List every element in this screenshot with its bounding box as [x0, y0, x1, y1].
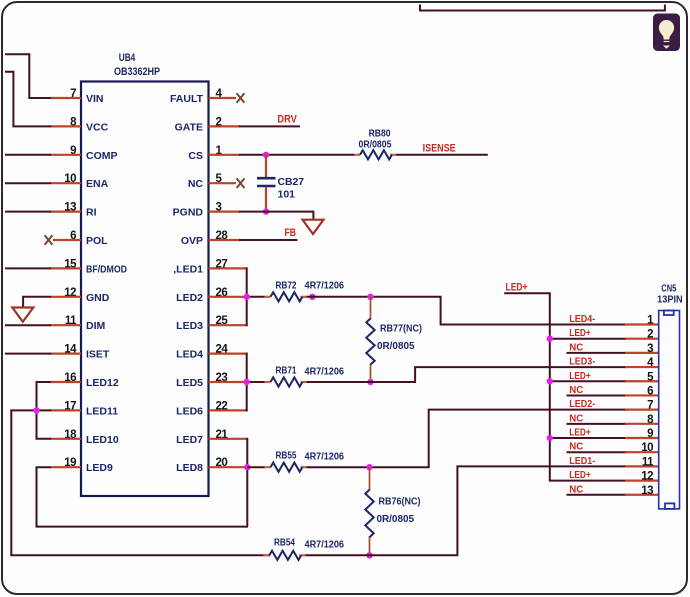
svg-text:RI: RI [86, 207, 97, 219]
wire LED+ to pin 5 [550, 380, 627, 382]
svg-text:LED+: LED+ [506, 281, 528, 293]
CN5 pin 7 stub [625, 409, 659, 411]
wire NC stub to CN5 pin 6 [567, 394, 628, 396]
wire LED12 to LED10 tie [37, 382, 52, 439]
wire NC stub to CN5 pin 13 [567, 494, 628, 496]
svg-text:LED9: LED9 [86, 462, 113, 474]
CN5 pin 12 stub [625, 479, 659, 481]
svg-text:LED8: LED8 [176, 462, 203, 474]
svg-text:CB27: CB27 [278, 176, 305, 188]
svg-text:6: 6 [647, 385, 653, 397]
CN5 pin 4 stub [625, 366, 659, 368]
pin 15 BF/DMOD stub [50, 267, 81, 269]
pin 26 LED2 stub [209, 296, 248, 298]
svg-text:0R/0805: 0R/0805 [377, 513, 415, 525]
pin 20 LED8 stub [209, 466, 248, 468]
connector CN5 bottom key notch [665, 503, 674, 509]
svg-text:ISENSE: ISENSE [423, 142, 456, 154]
wire top bus bracket [420, 5, 665, 11]
svg-text:3: 3 [647, 343, 653, 355]
wire RB55 output to CN5 pin 7 (LED2-) [307, 410, 628, 468]
junction RB77 bottom [367, 379, 373, 385]
pin 13 RI stub [50, 211, 81, 213]
svg-text:NC: NC [569, 413, 583, 424]
wire PGND net [239, 212, 313, 220]
svg-text:COMP: COMP [86, 150, 118, 162]
wire DRV net [239, 125, 300, 127]
svg-text:DIM: DIM [86, 320, 106, 332]
svg-text:FAULT: FAULT [170, 93, 204, 105]
wire NC stub to CN5 pin 8 [567, 423, 628, 425]
svg-text:GND: GND [86, 292, 110, 304]
pin 27 LED1 stub [209, 267, 248, 269]
junction RB76 bottom [366, 552, 372, 558]
svg-text:LED6: LED6 [176, 405, 203, 417]
svg-text:OVP: OVP [181, 235, 203, 247]
CN5 pin 1 stub [625, 323, 659, 325]
svg-text:LED3-: LED3- [569, 357, 595, 368]
no-connect X on FAULT pin 4 [237, 93, 245, 103]
junction LED8 tie [244, 464, 250, 470]
wire BF/DMOD net [5, 267, 51, 269]
wire ISET net [5, 353, 51, 355]
wire RB72 output to CN5 pin 1 (LED4-) [307, 297, 628, 325]
svg-text:13: 13 [641, 485, 653, 497]
svg-text:RB55: RB55 [276, 450, 297, 462]
svg-text:LED7: LED7 [176, 434, 203, 446]
svg-text:LED4-: LED4- [569, 314, 595, 325]
CN5 pin 13 stub [625, 494, 659, 496]
svg-text:NC: NC [569, 385, 583, 396]
wire LED4/LED5/LED6 tie [246, 353, 248, 412]
resistor RB80 [354, 154, 360, 156]
svg-text:NC: NC [569, 484, 583, 495]
wire VIN net [5, 54, 51, 98]
wire LED8 to RB55 [247, 466, 264, 468]
svg-text:101: 101 [278, 189, 296, 201]
svg-text:LED2: LED2 [176, 292, 203, 304]
svg-text:GATE: GATE [175, 121, 203, 133]
pin 11 DIM stub [50, 324, 81, 326]
wire LED9 net [37, 467, 249, 526]
wire VCC net [5, 72, 51, 127]
pin 21 LED7 stub [209, 438, 248, 440]
junction LED5 tie [244, 379, 250, 385]
svg-text:OB3362HP: OB3362HP [114, 66, 160, 78]
wire CS net to ISENSE [239, 154, 354, 156]
CN5 pin 11 stub [625, 465, 659, 467]
wire LED7/LED8/LED9 tie [246, 438, 248, 527]
svg-text:LED10: LED10 [86, 434, 119, 446]
pin 5 NC stub [209, 182, 237, 184]
CN5 pin 9 stub [625, 437, 659, 439]
junction LED2 tie [244, 294, 250, 300]
pin 18 LED10 stub [50, 438, 81, 440]
capacitor CB27 [257, 155, 276, 212]
svg-text:LED2-: LED2- [569, 399, 595, 410]
ground symbol (PGND) [303, 220, 324, 234]
junction CS / CB27 top [263, 152, 269, 158]
wire COMP net [5, 154, 51, 156]
junction RB77 top [367, 294, 373, 300]
junction RB72 output [309, 294, 315, 300]
svg-text:VCC: VCC [86, 121, 109, 133]
svg-text:LED1-: LED1- [569, 456, 595, 467]
no-connect X on NC pin 5 [237, 178, 245, 188]
svg-text:LED+: LED+ [569, 328, 591, 339]
pin 23 LED5 stub [209, 381, 248, 383]
pin 12 GND stub [50, 296, 81, 298]
svg-text:VIN: VIN [86, 93, 104, 105]
svg-text:UB4: UB4 [119, 52, 136, 64]
svg-text:4R7/1206: 4R7/1206 [305, 539, 345, 551]
svg-text:LED+: LED+ [569, 470, 591, 481]
CN5 pin 10 stub [625, 451, 659, 453]
wire RB71 output to CN5 pin 4 (LED3-) [307, 367, 628, 382]
svg-text:RB72: RB72 [276, 280, 297, 292]
svg-text:LED4: LED4 [176, 349, 203, 361]
svg-text:LED5: LED5 [176, 377, 203, 389]
connector CN5 body [659, 311, 680, 509]
CN5 pin 2 stub [625, 338, 659, 340]
IC UB4 OB3362HP body [81, 82, 209, 497]
wire NC stub to CN5 pin 3 [567, 352, 628, 354]
wire RB54 output to CN5 pin 11 (LED1-) [305, 466, 627, 555]
svg-text:7: 7 [647, 400, 653, 412]
svg-text:POL: POL [86, 235, 108, 247]
resistor RB54 [263, 554, 269, 556]
connector CN5 top key notch [664, 311, 674, 316]
wire LED1/LED2/LED3 tie [246, 267, 248, 326]
svg-text:11: 11 [642, 456, 654, 468]
CN5 pin 6 stub [625, 394, 659, 396]
pin 10 ENA stub [50, 182, 81, 184]
svg-text:RB76(NC): RB76(NC) [379, 496, 421, 508]
pin 22 LED6 stub [209, 409, 248, 411]
pin 16 LED12 stub [50, 381, 81, 383]
pin 19 LED9 stub [50, 466, 81, 468]
junction LED11/LED12/LED10 [33, 407, 39, 413]
svg-text:9: 9 [647, 428, 653, 440]
svg-text:RB54: RB54 [274, 537, 295, 549]
junction LED+ pin 2 [547, 335, 553, 341]
svg-text:0R/0805: 0R/0805 [359, 139, 392, 151]
pin 17 LED11 stub [50, 409, 81, 411]
light bulb icon [653, 14, 680, 52]
CN5 pin 3 stub [625, 352, 659, 354]
pin 25 LED3 stub [209, 324, 248, 326]
svg-text:LED3: LED3 [176, 320, 203, 332]
svg-text:2: 2 [647, 329, 653, 341]
svg-text:LED+: LED+ [569, 371, 591, 382]
wire LED+ to pin 2 [550, 338, 627, 340]
svg-text:NC: NC [569, 442, 583, 453]
svg-text:BF/DMOD: BF/DMOD [86, 263, 127, 275]
svg-text:LED11: LED11 [86, 405, 118, 417]
wire NC stub to CN5 pin 10 [567, 451, 628, 453]
wire DIM net [5, 324, 51, 326]
wire LED11 net to RB54 [11, 410, 270, 555]
svg-text:4R7/1206: 4R7/1206 [305, 280, 345, 292]
pin 14 ISET stub [50, 353, 81, 355]
wire ENA net [5, 182, 51, 184]
resistor RB55 [265, 466, 271, 468]
pin 2 GATE stub [209, 125, 241, 127]
svg-text:NC: NC [569, 342, 583, 353]
pin 24 LED4 stub [209, 353, 248, 355]
pin 8 VCC stub [50, 125, 81, 127]
CN5 pin 8 stub [625, 423, 659, 425]
svg-text:DRV: DRV [277, 113, 297, 125]
wire LED2 to RB72 [247, 296, 265, 298]
svg-text:,LED1: ,LED1 [173, 263, 203, 275]
svg-text:0R/0805: 0R/0805 [377, 340, 415, 352]
junction LED+ pin 5 [547, 378, 553, 384]
svg-text:RB71: RB71 [276, 365, 297, 377]
resistor RB72 [265, 296, 271, 298]
svg-text:ISET: ISET [86, 349, 110, 361]
svg-text:10: 10 [641, 442, 653, 454]
CN5 pin 5 stub [625, 380, 659, 382]
pin 7 VIN stub [50, 97, 81, 99]
wire LED+ to pin 9 [550, 437, 627, 439]
ground symbol (left) [12, 308, 33, 322]
resistor RB71 [265, 381, 271, 383]
svg-text:CN5: CN5 [661, 284, 676, 295]
wire LED+ bus [504, 293, 627, 480]
svg-text:FB: FB [285, 227, 297, 239]
svg-text:PGND: PGND [173, 207, 204, 219]
pin 28 OVP stub [209, 239, 241, 241]
svg-text:RB77(NC): RB77(NC) [380, 323, 422, 335]
wire LED5 to RB71 [247, 381, 265, 383]
junction LED+ pin 9 [547, 435, 553, 441]
svg-text:13PIN: 13PIN [657, 295, 683, 306]
resistor RB76 (NC) [369, 467, 371, 490]
wire ISENSE net [396, 154, 488, 156]
pin 9 COMP stub [50, 154, 81, 156]
svg-text:CS: CS [188, 150, 203, 162]
svg-text:ENA: ENA [86, 178, 109, 190]
svg-text:NC: NC [188, 178, 204, 190]
no-connect X on POL pin 6 [45, 235, 53, 245]
svg-text:4R7/1206: 4R7/1206 [305, 451, 345, 463]
junction RB76 top [366, 464, 372, 470]
svg-text:12: 12 [641, 471, 653, 483]
pin 6 POL stub [53, 239, 81, 241]
wire RI net [5, 211, 51, 213]
svg-text:4R7/1206: 4R7/1206 [305, 366, 345, 378]
svg-text:LED12: LED12 [86, 377, 119, 389]
wire FB net [239, 239, 297, 241]
svg-text:LED+: LED+ [569, 428, 591, 439]
junction PGND / CB27 bottom [263, 208, 269, 214]
resistor RB77 (NC) [370, 297, 372, 320]
pin 3 PGND stub [209, 211, 241, 213]
wire GND net [23, 297, 51, 308]
pin 4 FAULT stub [209, 97, 237, 99]
pin 1 CS stub [209, 154, 241, 156]
